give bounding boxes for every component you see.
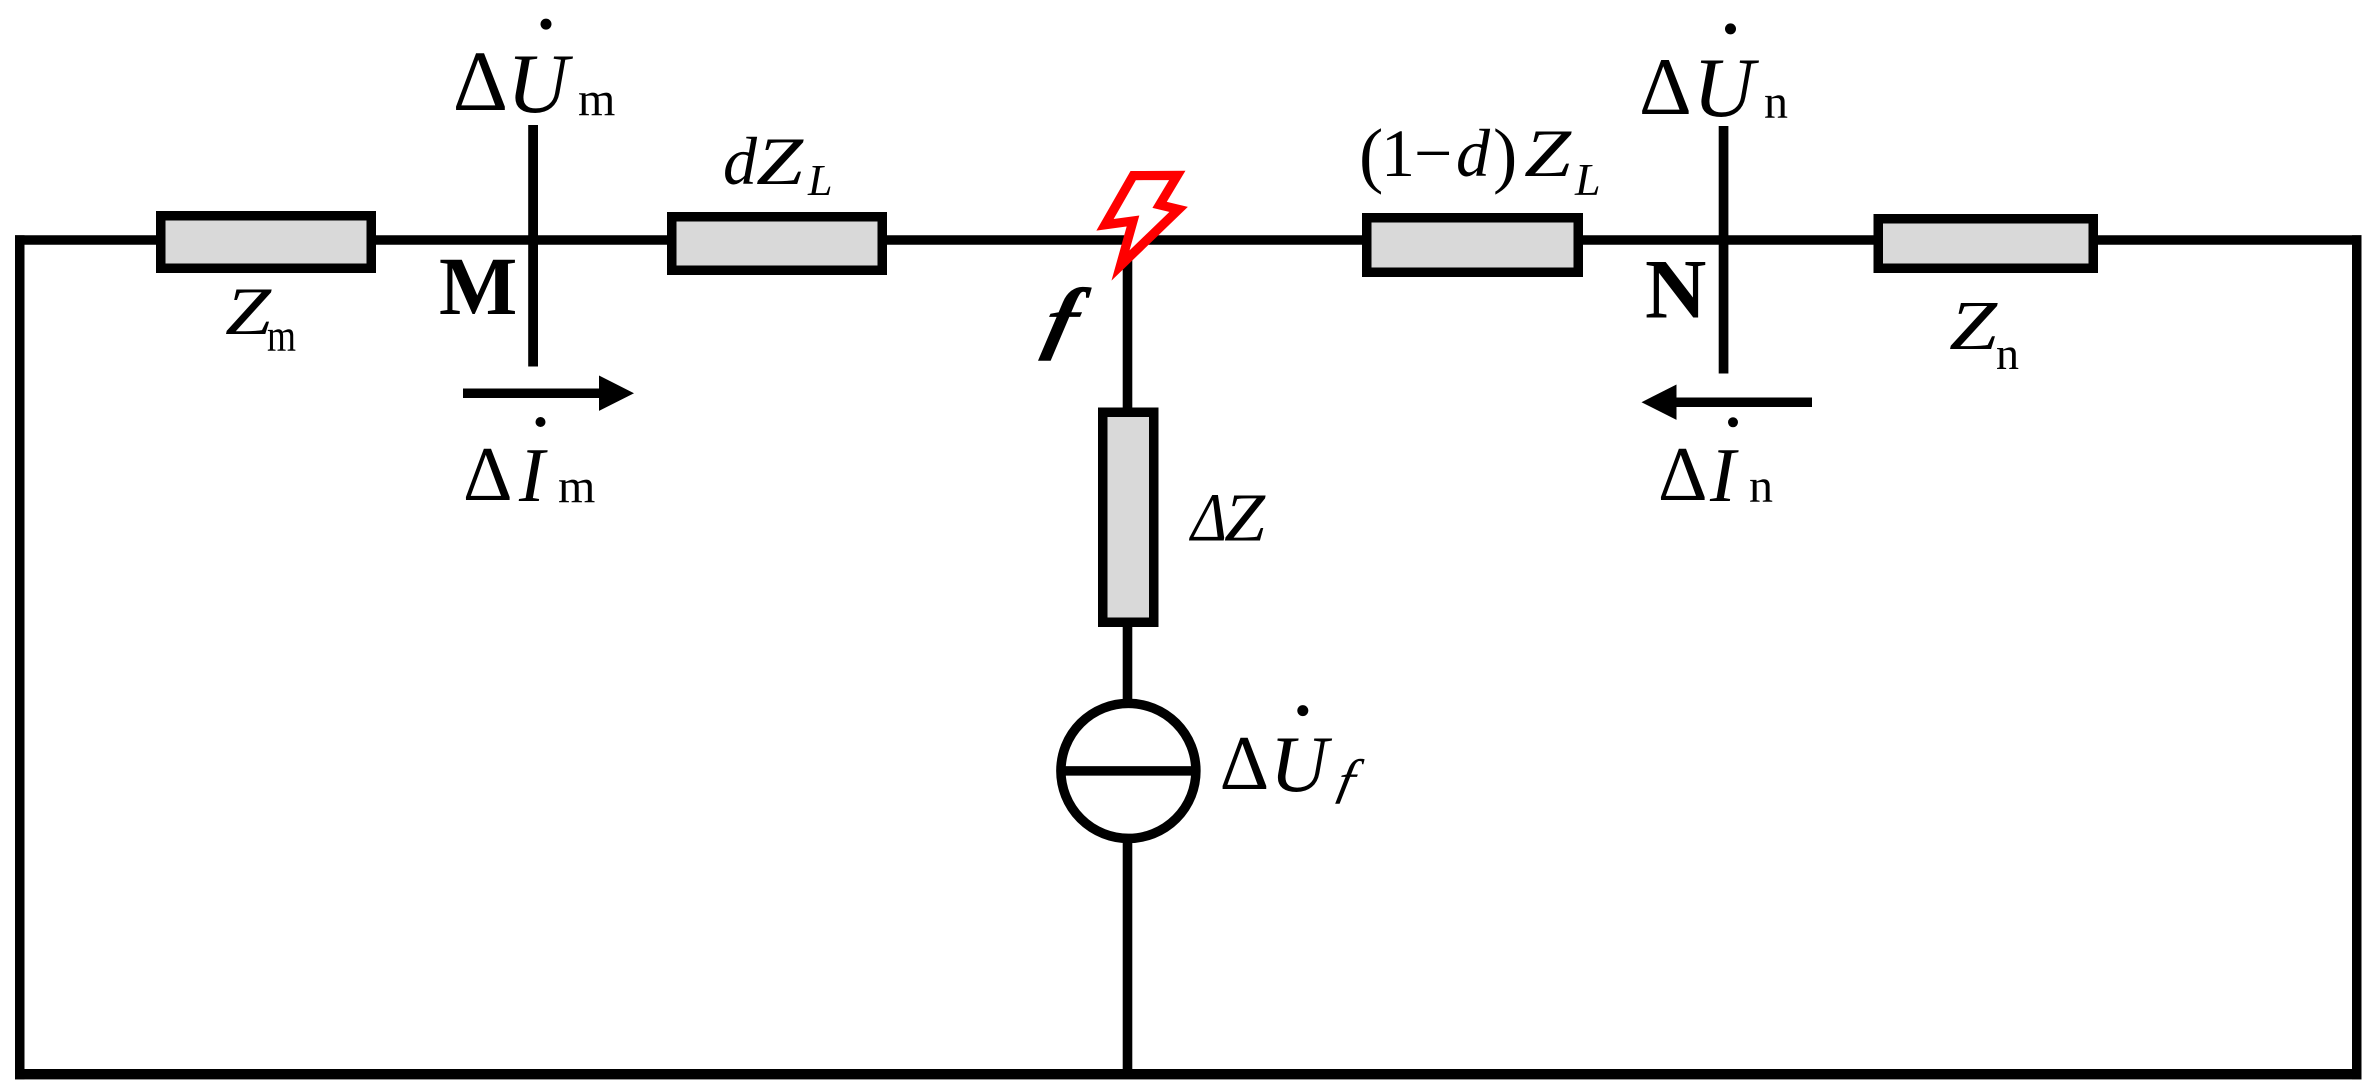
svg-text:L: L [1574,154,1601,205]
node N busbar [1719,126,1729,374]
fault lightning bolt [1105,175,1179,265]
svg-text:M: M [439,240,517,332]
svg-text:I: I [518,432,548,518]
svg-text:Δ: Δ [1658,431,1708,517]
wire right frame [2352,235,2362,1079]
wire bottom return [15,1069,2362,1079]
svg-text:Δ: Δ [1639,41,1692,132]
svg-text:m: m [578,73,615,126]
svg-text:Δ: Δ [453,33,508,129]
label dZL [723,123,832,205]
source chord [1061,766,1196,776]
svg-text:U: U [507,37,573,131]
label delta-U-m [453,19,616,131]
svg-text:(: ( [1359,114,1383,195]
label deltaZ [1188,480,1265,556]
wire top bus line [15,235,2362,245]
svg-text:m: m [558,460,595,513]
source deltaUf circle [1061,703,1196,838]
svg-text:1: 1 [1381,115,1415,191]
wire left frame [15,235,25,1079]
resistor Zm [161,216,372,269]
wire fault branch upper [1123,240,1133,412]
label Zm [225,273,296,361]
svg-text:Δ: Δ [463,431,513,517]
svg-text:Δ: Δ [1188,480,1227,556]
resistor Zn [1878,219,2093,269]
svg-text:Z: Z [756,123,804,199]
svg-text:Δ: Δ [1220,720,1270,806]
svg-text:n: n [1749,460,1773,513]
label Zn [1949,288,2019,379]
label delta-U-f [1220,705,1370,809]
svg-text:): ) [1493,114,1517,195]
label delta-I-m [463,417,595,518]
svg-text:Z: Z [1224,480,1266,556]
arrow current Im [463,376,634,411]
svg-text:I: I [1709,432,1739,518]
resistor deltaZ [1103,412,1154,622]
label delta-I-n [1658,417,1773,518]
resistor dZL [672,217,883,271]
svg-text:Z: Z [225,273,272,349]
svg-text:Z: Z [1949,288,1998,365]
svg-text:Z: Z [1524,115,1572,191]
svg-text:n: n [1996,328,2019,379]
svg-text:U: U [1270,721,1333,809]
svg-text:U: U [1693,41,1759,135]
svg-text:n: n [1764,76,1788,129]
svg-text:N: N [1645,243,1706,337]
wire source to bottom [1123,838,1133,1074]
resistor (1-d)ZL [1367,218,1579,273]
svg-text:d: d [1456,115,1491,191]
arrow current In [1642,385,1813,420]
label (1-d)ZL [1359,114,1601,205]
svg-text:L: L [807,156,832,205]
node M busbar [528,125,538,367]
label delta-U-n [1639,23,1788,135]
wire delta-Z to source [1123,622,1133,703]
svg-text:d: d [723,123,758,199]
svg-text:−: − [1414,115,1452,191]
svg-text:m: m [267,310,296,361]
